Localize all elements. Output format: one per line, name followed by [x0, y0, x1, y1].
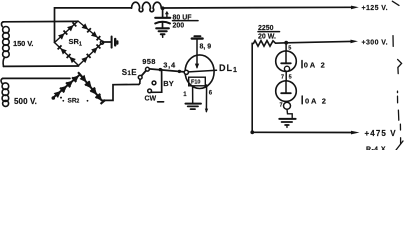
svg-text:BY: BY — [163, 79, 173, 88]
svg-text:2250: 2250 — [258, 25, 274, 32]
svg-text:200: 200 — [173, 23, 185, 30]
svg-text:80 UF: 80 UF — [173, 14, 193, 21]
svg-text:7: 7 — [280, 103, 283, 109]
svg-text:5: 5 — [288, 45, 291, 51]
svg-text:+125 V.: +125 V. — [362, 5, 388, 12]
svg-text:5: 5 — [289, 74, 292, 80]
svg-text:150 V.: 150 V. — [13, 39, 33, 48]
svg-text:20 W.: 20 W. — [258, 34, 276, 41]
svg-text:R-4 X: R-4 X — [366, 146, 386, 150]
svg-text:CW: CW — [145, 95, 157, 102]
svg-text:7: 7 — [281, 74, 284, 80]
svg-text:8, 9: 8, 9 — [200, 44, 212, 51]
svg-text:0A 2: 0A 2 — [304, 61, 327, 70]
svg-text:0A 2: 0A 2 — [305, 96, 328, 105]
svg-text:958: 958 — [142, 57, 155, 66]
svg-text:+300 V.: +300 V. — [362, 40, 388, 47]
svg-text:500 V.: 500 V. — [14, 97, 37, 106]
svg-text:3,4: 3,4 — [163, 60, 176, 69]
svg-text:+475 V: +475 V — [365, 129, 397, 138]
svg-text:SR2: SR2 — [68, 98, 80, 105]
svg-text:F10: F10 — [191, 80, 200, 86]
